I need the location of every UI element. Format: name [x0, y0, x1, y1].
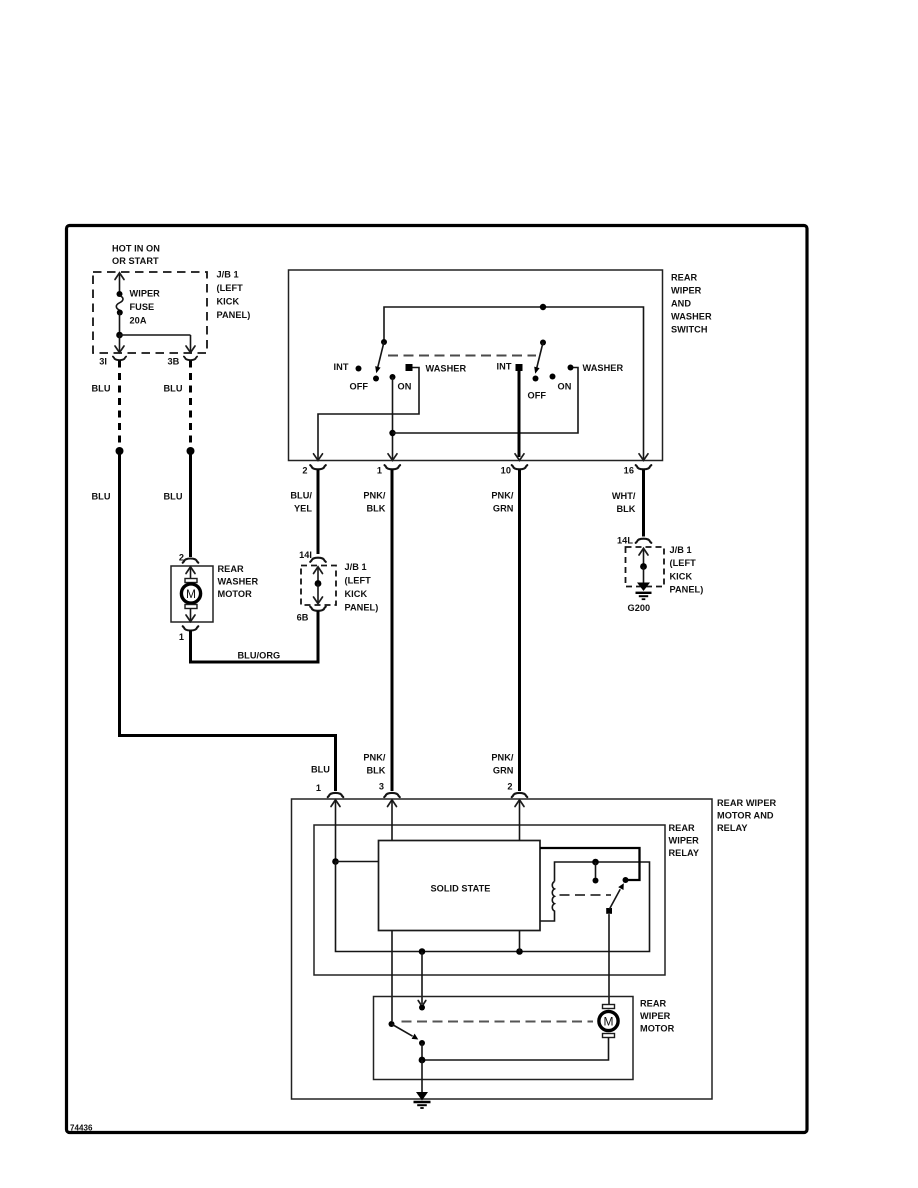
- wiper switch arm left: [381, 339, 387, 345]
- svg-text:YEL: YEL: [294, 504, 312, 514]
- label REAR WIPER MOTOR: [640, 999, 675, 1034]
- connector cap pin 3: [384, 793, 400, 797]
- solid state box: [379, 841, 541, 931]
- svg-text:INT: INT: [497, 362, 512, 372]
- svg-text:BLU: BLU: [164, 492, 183, 502]
- arrow down out of motor: [190, 609, 192, 622]
- mechanical link relay: [560, 894, 612, 896]
- svg-text:SWITCH: SWITCH: [671, 325, 708, 335]
- ground under wiper motor: [414, 1092, 431, 1108]
- arrow down pin 2 leg: [314, 454, 323, 461]
- label PNK/BLK: [363, 753, 386, 776]
- contact INT right (square): [516, 364, 523, 371]
- svg-text:1: 1: [179, 632, 184, 642]
- connector cup pin 2: [310, 465, 326, 469]
- label J/B 1 (LEFT KICK PANEL): [345, 562, 379, 613]
- svg-text:MOTOR: MOTOR: [640, 1024, 675, 1034]
- svg-text:WASHER: WASHER: [671, 312, 712, 322]
- svg-text:ON: ON: [398, 382, 412, 392]
- svg-text:OR START: OR START: [112, 256, 159, 266]
- label WIPER FUSE 20A: [130, 289, 161, 326]
- svg-text:3I: 3I: [99, 357, 107, 367]
- arrow up at box top: [115, 273, 124, 280]
- contact ON left: [390, 374, 396, 380]
- wire motor to ground rail: [422, 1038, 609, 1061]
- junction block J/B 1 dashed box: [93, 272, 207, 353]
- svg-text:WASHER: WASHER: [583, 363, 624, 373]
- svg-text:FUSE: FUSE: [130, 302, 155, 312]
- arrow up into motor: [190, 567, 192, 579]
- svg-text:HOT IN ON: HOT IN ON: [112, 244, 160, 254]
- relay switch arm: [606, 908, 612, 914]
- svg-text:PANEL): PANEL): [345, 603, 379, 613]
- wire ON contact down to pin 1: [392, 377, 394, 460]
- arrow up pin 1 into box: [331, 800, 340, 807]
- svg-text:14L: 14L: [617, 536, 633, 546]
- node bottom rail / park feed: [419, 948, 426, 955]
- contact OFF left: [373, 376, 379, 382]
- wire to ground: [643, 567, 645, 584]
- svg-text:3B: 3B: [168, 357, 180, 367]
- wire node down to bottom rail: [336, 862, 650, 952]
- node inside J/B: [315, 580, 322, 587]
- svg-text:6B: 6B: [297, 613, 309, 623]
- wire BLU dashed from 3B: [189, 361, 192, 449]
- svg-text:WHT/: WHT/: [612, 491, 636, 501]
- label REAR WIPER MOTOR AND RELAY: [717, 798, 777, 833]
- wire down to ground: [421, 1060, 423, 1093]
- node splice on 3I wire: [116, 447, 124, 455]
- svg-text:1: 1: [377, 466, 382, 476]
- rear washer motor box: [171, 566, 213, 622]
- wire pin2 to solid state: [519, 800, 521, 841]
- contact relay NO: [623, 877, 629, 883]
- svg-text:BLK: BLK: [616, 504, 635, 514]
- motor M2 armature: [599, 1005, 618, 1038]
- wire relay arm to motor: [608, 914, 610, 1004]
- arrow up pin 2 into box: [515, 800, 524, 807]
- svg-text:BLK: BLK: [366, 766, 385, 776]
- wire park switch feed down: [421, 952, 423, 1005]
- wire washer contact to pin 2: [318, 368, 419, 461]
- svg-text:REAR: REAR: [671, 273, 698, 283]
- svg-text:REAR: REAR: [218, 564, 245, 574]
- connector cup 6B: [310, 607, 326, 611]
- contact INT left: [356, 366, 362, 372]
- connector cup pin 10: [512, 465, 528, 469]
- svg-text:J/B 1: J/B 1: [345, 562, 367, 572]
- svg-text:BLU: BLU: [92, 492, 111, 502]
- svg-text:BLU: BLU: [164, 384, 183, 394]
- node inside J/B: [640, 563, 647, 570]
- svg-text:RELAY: RELAY: [717, 823, 748, 833]
- connector cap pin 2: [512, 793, 528, 797]
- svg-text:PNK/: PNK/: [491, 491, 514, 501]
- svg-text:SOLID STATE: SOLID STATE: [431, 884, 491, 894]
- svg-text:(LEFT: (LEFT: [345, 576, 372, 586]
- svg-text:74436: 74436: [70, 1124, 93, 1133]
- label J/B 1 (LEFT KICK PANEL): [217, 270, 251, 321]
- connector cup pin 1: [183, 626, 199, 630]
- arrow up inside J/B: [643, 549, 645, 567]
- node junction pin1/washer-right: [389, 430, 395, 436]
- svg-text:OFF: OFF: [350, 382, 369, 392]
- svg-text:(LEFT: (LEFT: [217, 283, 244, 293]
- J/B 1 dashed box 14I/6B: [301, 566, 336, 606]
- arrow down pin 1 leg: [388, 454, 397, 461]
- contact park feed: [419, 1005, 425, 1011]
- svg-text:PANEL): PANEL): [217, 310, 251, 320]
- svg-text:KICK: KICK: [345, 589, 368, 599]
- park switch arm: [389, 1021, 395, 1027]
- contact WASHER left (square): [406, 364, 413, 371]
- contact OFF right: [533, 376, 539, 382]
- connector cap 14I: [310, 558, 326, 562]
- wire fuse to junction: [119, 313, 121, 336]
- svg-text:2: 2: [302, 466, 307, 476]
- node splice on 3B wire: [187, 447, 195, 455]
- wire BLU/ORG from washer motor to J/B: [191, 631, 319, 663]
- wire bus across top of switch: [384, 307, 644, 460]
- contact ON right: [550, 374, 556, 380]
- svg-text:BLU/: BLU/: [290, 491, 312, 501]
- arrow down inside J/B: [317, 584, 319, 604]
- svg-text:20A: 20A: [130, 316, 147, 326]
- connector 3I cup: [113, 357, 126, 361]
- wire INT right down to pin 10: [518, 371, 521, 457]
- svg-text:REAR WIPER: REAR WIPER: [717, 798, 777, 808]
- svg-text:G200: G200: [628, 603, 651, 613]
- node fuse output junction: [116, 332, 123, 339]
- wire node to solid state: [336, 861, 379, 863]
- connector cap pin 1: [328, 793, 344, 797]
- svg-text:2: 2: [507, 782, 512, 792]
- wire right washer contact to pin1 node: [393, 368, 579, 434]
- wire PNK/BLK: [391, 470, 394, 792]
- node on coil rail: [592, 859, 599, 866]
- svg-text:1: 1: [316, 783, 321, 793]
- svg-text:MOTOR: MOTOR: [218, 589, 253, 599]
- svg-text:PNK/: PNK/: [363, 753, 386, 763]
- label REAR WIPER AND WASHER SWITCH: [671, 273, 712, 335]
- svg-text:3: 3: [379, 782, 384, 792]
- connector 3B cup: [184, 357, 197, 361]
- contact park down: [419, 1040, 425, 1046]
- svg-text:GRN: GRN: [493, 766, 514, 776]
- arrow down pin 10 leg: [515, 454, 524, 461]
- wire feed into fuse: [119, 273, 121, 293]
- label REAR WASHER MOTOR: [218, 564, 259, 599]
- svg-text:J/B 1: J/B 1: [670, 545, 692, 555]
- svg-text:REAR: REAR: [640, 999, 667, 1009]
- J/B 1 dashed box 14L: [626, 547, 665, 587]
- wire park contact to ground rail: [421, 1043, 423, 1060]
- node pin1 branch: [332, 858, 339, 865]
- svg-text:OFF: OFF: [528, 391, 547, 401]
- arrow up pin 3 into box: [388, 800, 397, 807]
- wire BLU solid 3I leg down: [120, 451, 336, 791]
- svg-text:KICK: KICK: [217, 297, 240, 307]
- wire pin3 to solid state: [391, 800, 393, 841]
- svg-text:16: 16: [624, 466, 634, 476]
- wire solid state to park arm: [391, 931, 393, 1022]
- page frame: [67, 226, 808, 1133]
- node ground rail: [419, 1057, 426, 1064]
- label REAR WIPER RELAY: [669, 823, 700, 858]
- svg-text:GRN: GRN: [493, 504, 514, 514]
- contact relay stud: [595, 862, 597, 878]
- mechanical link dashes left to right arm: [388, 355, 536, 357]
- wire BLU dashed from 3I: [118, 361, 121, 449]
- arrow into park contact: [418, 1001, 426, 1007]
- svg-text:WIPER: WIPER: [640, 1011, 671, 1021]
- svg-text:PNK/: PNK/: [363, 491, 386, 501]
- switch box: [289, 270, 663, 461]
- label PNK/GRN: [491, 753, 514, 776]
- wire PNK/GRN: [518, 470, 521, 792]
- fuse F wiper fuse 20A: [116, 291, 123, 316]
- wire BLU solid 3B leg down: [189, 451, 192, 557]
- svg-text:KICK: KICK: [670, 572, 693, 582]
- svg-text:PANEL): PANEL): [670, 585, 704, 595]
- ground G200: [636, 583, 652, 600]
- svg-text:MOTOR AND: MOTOR AND: [717, 811, 774, 821]
- connector cap pin 2: [183, 559, 199, 563]
- rear wiper motor and relay box: [292, 799, 713, 1099]
- svg-text:(LEFT: (LEFT: [670, 558, 697, 568]
- svg-text:BLK: BLK: [366, 504, 385, 514]
- wiper switch arm right: [540, 340, 546, 346]
- arrow down 3I: [115, 346, 124, 353]
- motor M1 armature: [181, 579, 200, 609]
- wire BLU/YEL: [317, 470, 320, 555]
- svg-text:WIPER: WIPER: [671, 286, 702, 296]
- arrow up inside J/B: [317, 567, 319, 584]
- svg-text:WASHER: WASHER: [218, 577, 259, 587]
- svg-text:BLU/ORG: BLU/ORG: [238, 651, 281, 661]
- svg-text:M: M: [603, 1015, 613, 1029]
- label J/B 1 (LEFT KICK PANEL): [670, 545, 704, 595]
- svg-text:14I: 14I: [299, 550, 312, 560]
- connector cap 14L: [636, 539, 652, 543]
- wire WHT/BLK: [642, 470, 645, 537]
- svg-text:WIPER: WIPER: [669, 836, 700, 846]
- node junction on bus: [540, 304, 546, 310]
- svg-text:BLU: BLU: [311, 765, 330, 775]
- connector cup pin 16: [636, 465, 652, 469]
- wire 6B down to BLU/ORG: [317, 611, 320, 664]
- svg-text:RELAY: RELAY: [669, 848, 700, 858]
- wire pin1 into relay: [335, 800, 337, 862]
- wire solid state bottom to rail: [519, 931, 521, 952]
- arrow down pin 16 leg: [639, 454, 648, 461]
- connector cup pin 1: [385, 465, 401, 469]
- svg-text:BLU: BLU: [92, 384, 111, 394]
- contact WASHER right: [568, 365, 574, 371]
- svg-text:REAR: REAR: [669, 823, 696, 833]
- mechanical link motor: [402, 1021, 594, 1023]
- svg-text:WASHER: WASHER: [426, 364, 467, 374]
- svg-text:AND: AND: [671, 299, 691, 309]
- svg-text:WIPER: WIPER: [130, 289, 161, 299]
- rear wiper motor box: [374, 997, 634, 1080]
- svg-text:INT: INT: [334, 362, 349, 372]
- relay coil L: [540, 882, 555, 922]
- svg-text:PNK/: PNK/: [491, 753, 514, 763]
- rear wiper relay box: [314, 825, 665, 975]
- arrow down 3B: [186, 346, 195, 353]
- label HOT IN ON OR START: [112, 244, 160, 267]
- svg-text:10: 10: [501, 466, 511, 476]
- wire junction across to 3B leg: [120, 335, 191, 352]
- svg-text:J/B 1: J/B 1: [217, 270, 239, 280]
- svg-text:ON: ON: [558, 382, 572, 392]
- node bottom rail / solid state: [516, 948, 523, 955]
- svg-text:M: M: [186, 587, 196, 601]
- wire solid state output to relay contact: [540, 848, 640, 880]
